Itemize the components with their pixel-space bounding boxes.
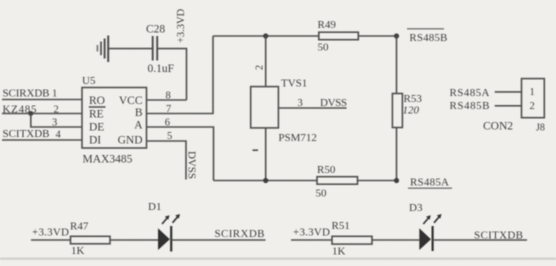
net KZ485 pin2 label xyxy=(3,104,59,116)
pin number 1 rotated xyxy=(253,149,259,151)
wire row2 mid xyxy=(372,239,419,241)
junction bottom right xyxy=(394,178,399,183)
wire TVS pin 2 xyxy=(265,36,267,87)
junction TVS top xyxy=(263,33,268,38)
wire pin 8 VCC xyxy=(147,99,187,101)
LED D1 xyxy=(148,201,180,252)
wire row2 right xyxy=(433,239,527,241)
resistor R47 xyxy=(70,221,110,258)
wire row1 right xyxy=(171,239,265,241)
capacitor C28 xyxy=(146,24,174,76)
resistor R53 xyxy=(392,93,422,128)
wire junction down to pin 3 xyxy=(31,114,82,128)
wire top rail right xyxy=(358,35,396,37)
net SCIRXDB pin1 label xyxy=(3,87,58,99)
resistor R50 xyxy=(316,164,358,200)
wire pin 7 B up to top rail xyxy=(147,36,214,114)
junction top right xyxy=(394,33,399,38)
resistor R49 xyxy=(318,19,359,54)
wire bottom rail right xyxy=(358,180,397,182)
TVS U: TVS1 box xyxy=(251,87,279,128)
wire TVS pin 3 xyxy=(278,107,346,109)
RE overline xyxy=(89,106,106,108)
chip inner pin names xyxy=(89,95,143,147)
op-amp U1 : transceiver chip U5 box xyxy=(82,88,147,149)
wire pin 6 A down to bottom rail xyxy=(147,127,214,181)
wire C28 to +3.3VD vertical xyxy=(157,49,186,100)
connector CON2 box xyxy=(522,79,545,118)
wire pin 2 xyxy=(2,113,82,115)
wire TVS pin 1 xyxy=(265,128,267,181)
wire row2 left xyxy=(291,239,332,241)
resistor R51 xyxy=(332,220,373,258)
ground xyxy=(97,36,108,63)
LED D3 xyxy=(409,202,442,251)
wire bottom rail left xyxy=(214,180,318,182)
wire row1 mid xyxy=(110,239,158,241)
wire row1 left xyxy=(31,239,71,241)
wire top rail left xyxy=(213,35,319,37)
wire pin 5 GND stub xyxy=(147,141,187,180)
junction TVS bottom xyxy=(263,178,268,183)
net RS485A label xyxy=(408,176,452,188)
wire to pin 2 xyxy=(495,105,522,107)
wire ground to C28 xyxy=(109,48,152,50)
wire R53 bottom xyxy=(396,128,398,181)
junction dot on KZ485 wire xyxy=(28,111,33,116)
wire R53 top xyxy=(396,36,398,94)
wire to pin 1 xyxy=(495,91,522,93)
net RS485B label xyxy=(407,29,447,44)
wire pin 1 xyxy=(2,99,82,101)
wire pin 4 xyxy=(2,139,82,141)
net SCITXDB pin4 label xyxy=(3,128,62,141)
